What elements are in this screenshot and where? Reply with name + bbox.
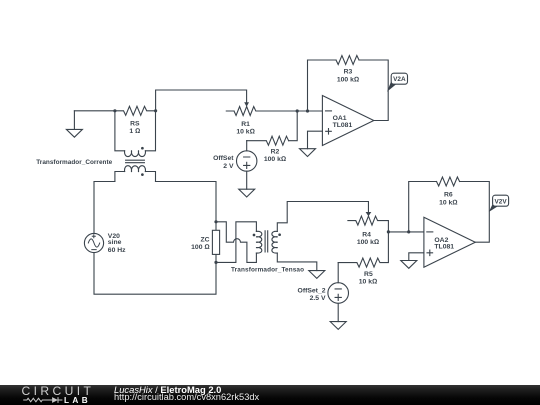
- wire OA1 non-inverting input: [308, 131, 323, 149]
- voltage source V20 sine 60Hz: [84, 233, 126, 254]
- node junction RS left: [113, 109, 116, 112]
- voltage source OffSet 2V: [213, 141, 257, 190]
- svg-text:V2A: V2A: [393, 76, 406, 83]
- footer url: [114, 393, 259, 402]
- wire feedback OA2 left leg: [409, 182, 437, 232]
- wire R2 riser: [289, 111, 298, 141]
- wire ZC top to transformer2 primary bottom (with hop): [216, 222, 256, 263]
- potentiometer R4 100k: [348, 212, 389, 246]
- svg-text:R1: R1: [241, 121, 250, 128]
- resistor R2 100k: [247, 136, 289, 163]
- node junction ZC bottom: [214, 261, 217, 264]
- resistor R5 10k: [338, 232, 388, 286]
- wire to OA1 inverting input: [297, 110, 322, 112]
- resistor RS 1ohm: [115, 106, 156, 135]
- wire transformer2 primary top to ZC bottom: [216, 222, 256, 263]
- svg-text:2.5 V: 2.5 V: [310, 295, 326, 302]
- svg-text:10 kΩ: 10 kΩ: [236, 129, 254, 136]
- wire to OA2 inverting input: [388, 231, 424, 233]
- wire transformer secondary left to V20: [94, 182, 115, 234]
- footer bar: [0, 385, 540, 405]
- svg-text:100 Ω: 100 Ω: [191, 244, 209, 251]
- node junction feedback tap: [306, 109, 309, 112]
- resistor R6 10k: [437, 177, 460, 207]
- wire ground to RS: [74, 110, 115, 112]
- svg-text:60 Hz: 60 Hz: [108, 247, 126, 254]
- svg-text:10 kΩ: 10 kΩ: [359, 279, 377, 286]
- svg-text:1 Ω: 1 Ω: [129, 128, 140, 135]
- svg-text:sine: sine: [108, 239, 122, 246]
- node junction R4/R5: [387, 230, 390, 233]
- svg-text:TL081: TL081: [333, 122, 353, 129]
- logo CIRCUIT LAB: [22, 385, 95, 397]
- svg-text:Transformador_Tensao: Transformador_Tensao: [231, 267, 304, 274]
- potentiometer R1 10k: [226, 102, 297, 135]
- node junction feedback tap OA2: [407, 230, 410, 233]
- wire transformer secondary right to ZC top: [156, 182, 217, 222]
- ground G_top_left: [66, 111, 82, 137]
- transformer Transformador_Corrente: [36, 111, 155, 182]
- svg-text:Transformador_Corrente: Transformador_Corrente: [36, 159, 112, 166]
- svg-text:OA1: OA1: [333, 115, 347, 122]
- ground at OA2 plus input: [401, 261, 417, 269]
- voltage source OffSet_2 2.5V: [298, 263, 349, 322]
- svg-text:R6: R6: [444, 191, 453, 198]
- svg-text:100 kΩ: 100 kΩ: [357, 239, 379, 246]
- transformer Transformador_Tensao: [231, 231, 304, 274]
- flag V2V: [489, 195, 509, 212]
- wire feedback OA2 right leg and output: [460, 182, 490, 243]
- svg-text:100 kΩ: 100 kΩ: [337, 76, 359, 83]
- wire V20 bottom loop: [94, 253, 216, 295]
- svg-text:TL081: TL081: [434, 243, 454, 250]
- svg-text:R4: R4: [362, 231, 371, 238]
- svg-text:R2: R2: [271, 149, 280, 156]
- svg-text:R5: R5: [364, 271, 373, 278]
- wire RS node up and over to R1 wiper: [156, 90, 247, 111]
- svg-text:V2V: V2V: [495, 199, 508, 206]
- ground at OA1 plus input: [300, 149, 316, 157]
- ground under transformer2: [309, 271, 325, 279]
- flag V2A: [387, 73, 408, 92]
- node junction R1 right / R2 tap: [296, 109, 299, 112]
- svg-text:OffSet_2: OffSet_2: [298, 287, 326, 294]
- svg-text:100 kΩ: 100 kΩ: [264, 156, 286, 163]
- svg-text:RS: RS: [130, 121, 140, 128]
- svg-text:2 V: 2 V: [223, 163, 234, 170]
- node junction RS right: [154, 109, 157, 112]
- svg-text:OffSet: OffSet: [213, 155, 234, 162]
- svg-text:R3: R3: [344, 69, 353, 76]
- node junction ZC top: [214, 220, 217, 223]
- wire transformer2 secondary top to R4 wiper: [277, 202, 368, 232]
- svg-text:10 kΩ: 10 kΩ: [439, 200, 457, 207]
- wire OA2 non-inverting input: [409, 253, 424, 261]
- op-amp OA2 TL081: [424, 217, 475, 267]
- resistor R3 100k: [336, 56, 359, 84]
- op-amp OA1 TL081: [322, 96, 373, 146]
- wire feedback right leg and OA1 output: [359, 60, 388, 121]
- ground under OffSet: [239, 189, 255, 197]
- resistor ZC 100ohm (box): [191, 222, 219, 263]
- svg-text:ZC: ZC: [201, 236, 210, 243]
- footer title: [114, 385, 221, 394]
- wire feedback left leg: [308, 60, 337, 111]
- wire transformer2 secondary bottom to ground: [277, 253, 317, 271]
- ground under OffSet_2: [330, 322, 346, 330]
